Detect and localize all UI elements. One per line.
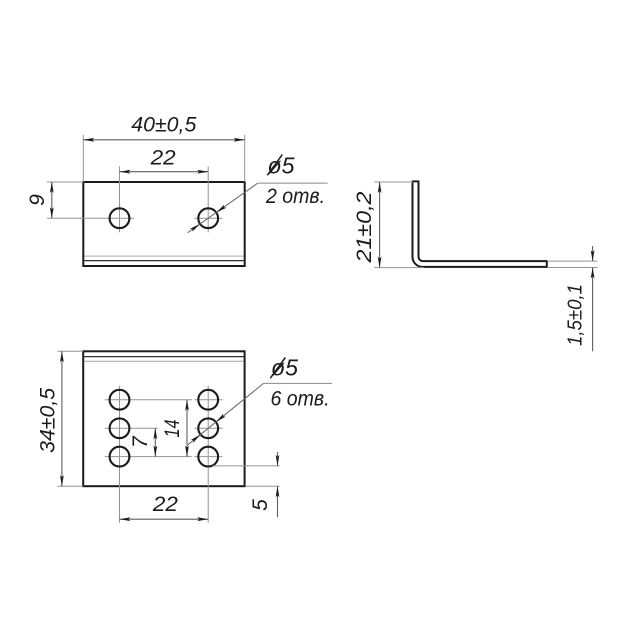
dim 1,5: top extension line [548, 260, 598, 262]
side view: L-profile outline [413, 181, 547, 267]
dim 5: lower tail line [277, 486, 279, 517]
dim 5: lower extension line [246, 485, 280, 487]
dim 40: left extension line [82, 135, 84, 182]
bottom view: bend tangent line (outer) [84, 360, 244, 362]
bottom dim 22: dimension line [120, 518, 209, 520]
svg-text:21±0,2: 21±0,2 [353, 191, 376, 263]
bottom view: row2 right hole centerline [195, 427, 223, 429]
top view: vertical centerline right hole / ext of dim 22 [207, 167, 209, 233]
dim 34: dimension line [61, 351, 63, 486]
dim 5: top arrow (outside) [276, 455, 280, 466]
dim 7: dimension line [154, 428, 156, 456]
dim 5: upper tail line [277, 452, 279, 466]
dim 5: bottom arrow (outside) [276, 486, 280, 497]
svg-text:6 отв.: 6 отв. [271, 388, 330, 411]
bottom leader: arrow upper-right [216, 414, 226, 422]
dim 40: dimension line [83, 139, 244, 141]
dim 21: bottom extension line [374, 267, 424, 269]
bottom view: plate outline [83, 351, 244, 486]
bottom view: hole 6 [198, 447, 218, 467]
top dim 22: right arrow [197, 170, 208, 174]
svg-text:2 отв.: 2 отв. [265, 185, 325, 208]
bottom leader: shelf line [264, 382, 333, 384]
dim 14: dimension line [186, 400, 188, 457]
dim 21: top arrow [378, 182, 382, 193]
svg-text:7: 7 [129, 435, 152, 448]
top view: plate outline [83, 182, 244, 266]
top dim 22: left arrow [120, 170, 131, 174]
top view: hole left [110, 208, 130, 228]
bottom dim 22: right arrow [197, 517, 208, 521]
dim 14: top arrow [185, 400, 189, 411]
bottom view: hole 2 [110, 418, 130, 438]
dim 9: dimension line [51, 182, 53, 218]
top view: bend line (inner) [84, 260, 244, 262]
top dim 22: dimension line [120, 171, 209, 173]
dim 1,5: lower tail line [592, 268, 594, 352]
dim 9: top extension line [47, 181, 83, 183]
dim 21: bottom arrow [378, 257, 382, 268]
dim 34: top extension line [58, 350, 84, 352]
svg-text:5: 5 [249, 499, 272, 511]
svg-text:1,5±0,1: 1,5±0,1 [565, 284, 587, 346]
dim 1,5: bottom arrow (outside) [591, 268, 595, 279]
bottom view: hole 1 [110, 390, 130, 410]
dim 21: top extension line [374, 181, 413, 183]
dim 7: bottom arrow [153, 446, 157, 457]
svg-text:22: 22 [150, 147, 176, 170]
dim 9: top arrow [50, 182, 54, 193]
bottom view: row1 centerline / ext dim 14 [105, 399, 192, 401]
dim 7: top arrow [153, 428, 157, 439]
dim 34: bottom extension line [58, 485, 84, 487]
top leader: arrow lower-left [190, 224, 200, 232]
dim 5: upper extension line (hole tangent) [213, 465, 280, 467]
bottom view: hole 5 [198, 418, 218, 438]
dim 1,5: upper tail line [592, 246, 594, 261]
top leader: arrow upper-right [216, 205, 226, 213]
dim 34: bottom arrow [60, 475, 64, 486]
dim 40: right extension line [244, 135, 246, 182]
top view: horizontal centerline left hole / ext of dim 9 [47, 217, 134, 219]
top leader: phi slash stroke [267, 155, 282, 176]
dim 14: bottom arrow [185, 446, 189, 457]
top view: vertical centerline left hole / ext of dim 22 [119, 167, 121, 233]
bottom dim 22: left arrow [120, 517, 131, 521]
dim 34: top arrow [60, 351, 64, 362]
bottom view: vertical centerline left column / ext dim 22 [119, 386, 121, 523]
bottom leader: diagonal line [188, 383, 264, 444]
top view: horizontal centerline right hole [194, 217, 222, 219]
top leader: diagonal line [188, 183, 258, 233]
bottom view: bend line (inner) [84, 356, 244, 358]
dim 9: bottom arrow [50, 207, 54, 218]
bottom view: hole 4 [198, 390, 218, 410]
top leader: shelf line [258, 182, 328, 184]
svg-text:9: 9 [26, 194, 49, 206]
bottom view: row2 centerline / ext dim 7 [105, 427, 158, 429]
dim 40: right arrow [234, 138, 245, 142]
dim 1,5: bottom extension line [548, 267, 598, 269]
bottom leader: phi slash stroke [270, 358, 285, 379]
svg-text:22: 22 [152, 493, 178, 516]
dim 40: left arrow [83, 138, 94, 142]
bottom leader: arrow lower-left [191, 435, 201, 443]
svg-text:14: 14 [161, 420, 184, 438]
dim 1,5: top arrow (outside) [591, 250, 595, 261]
bottom view: row3 centerline / ext dim 14+7 [105, 456, 192, 458]
bottom view: row3 right hole centerline [195, 456, 223, 458]
bottom view: hole 3 [110, 447, 130, 467]
svg-text:40±0,5: 40±0,5 [131, 113, 196, 136]
bottom view: vertical centerline right column / ext dim 22 [207, 386, 209, 523]
svg-text:34±0,5: 34±0,5 [37, 388, 60, 453]
bottom view: row1 right hole centerline [195, 399, 223, 401]
dim 21: dimension line [379, 182, 381, 268]
top view: hole right [198, 208, 218, 228]
top view: bend tangent line (outer) [84, 255, 244, 257]
